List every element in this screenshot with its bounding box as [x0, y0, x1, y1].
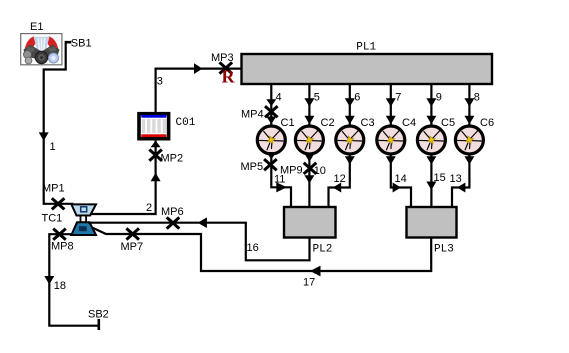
valve MP3	[220, 62, 233, 73]
label MP4	[241, 109, 264, 121]
svg-text:13: 13	[450, 173, 462, 185]
svg-text:5: 5	[314, 92, 320, 104]
svg-text:15: 15	[434, 172, 446, 184]
svg-text:C6: C6	[480, 117, 494, 129]
svg-text:MP8: MP8	[51, 241, 74, 253]
wire 12 (C3 to PL2)	[329, 156, 355, 207]
wire 18 (TC1 via MP8 to SB2)	[44, 234, 99, 326]
cooler C01	[139, 114, 169, 139]
svg-text:C3: C3	[361, 117, 375, 129]
label 11	[274, 174, 285, 186]
svg-text:C4: C4	[402, 117, 416, 129]
svg-text:C01: C01	[176, 117, 196, 129]
svg-text:9: 9	[436, 92, 442, 104]
fan C1	[257, 126, 285, 154]
wire 14 (C4 to PL3)	[386, 156, 411, 207]
label 15	[434, 172, 446, 184]
label 4	[276, 92, 282, 104]
svg-text:SB1: SB1	[71, 38, 92, 50]
label MP5	[241, 161, 264, 173]
label C3	[361, 117, 375, 129]
label MP2	[161, 153, 184, 165]
label C5	[441, 117, 455, 129]
svg-text:MP1: MP1	[42, 183, 65, 195]
plenum PL3	[407, 207, 457, 238]
svg-text:MP4: MP4	[241, 109, 264, 121]
wire 7 (PL1 to C4)	[386, 85, 396, 125]
svg-text:3: 3	[157, 76, 163, 88]
fan C3	[336, 126, 364, 154]
wire 11 (C1 via MP5 to PL2)	[266, 152, 291, 206]
valve MP6	[167, 217, 180, 228]
svg-text:8: 8	[474, 92, 480, 104]
label MP8	[51, 241, 74, 253]
label C01	[176, 117, 196, 129]
svg-text:18: 18	[54, 280, 66, 292]
label SB1	[71, 38, 92, 50]
label E1	[30, 21, 43, 33]
label C4	[402, 117, 416, 129]
wire 1 (SB1 to MP1 to TC1)	[39, 41, 74, 204]
label 3	[157, 76, 163, 88]
valve MP4	[265, 106, 278, 117]
wire 5 (PL1 to C2)	[304, 85, 314, 125]
label 14	[395, 173, 407, 185]
wire 17 (PL3 to TC1 turbine)	[200, 239, 431, 277]
label 7	[395, 92, 401, 104]
svg-text:10: 10	[314, 165, 326, 177]
svg-text:4: 4	[276, 92, 282, 104]
valve MP8	[53, 229, 66, 240]
fan C4	[377, 126, 405, 154]
label 5	[314, 92, 320, 104]
valve MP7	[126, 228, 139, 239]
label C6	[480, 117, 494, 129]
label 2	[146, 202, 152, 214]
svg-text:SB2: SB2	[88, 309, 109, 321]
svg-text:MP2: MP2	[161, 153, 184, 165]
label PL1	[356, 41, 376, 53]
wire 15 (C5 to PL3)	[426, 156, 436, 207]
svg-text:C2: C2	[321, 117, 335, 129]
svg-text:TC1: TC1	[42, 213, 63, 225]
wire 4 (PL1 to MP4 to C1)	[266, 85, 276, 125]
svg-text:2: 2	[146, 202, 152, 214]
label MP1	[42, 183, 65, 195]
valve MP9	[304, 163, 317, 174]
svg-text:14: 14	[395, 173, 407, 185]
svg-text:PL1: PL1	[356, 41, 376, 53]
svg-text:MP7: MP7	[121, 241, 144, 253]
node SB2	[98, 319, 101, 330]
label 9	[436, 92, 442, 104]
valve MP1	[52, 198, 65, 209]
svg-text:PL2: PL2	[313, 244, 333, 256]
fan C6	[455, 126, 483, 154]
label SB2	[88, 309, 109, 321]
svg-text:12: 12	[334, 173, 346, 185]
svg-text:C5: C5	[441, 117, 455, 129]
label TC1	[42, 213, 63, 225]
svg-text:E1: E1	[30, 21, 43, 33]
label 12	[334, 173, 346, 185]
label 18	[54, 280, 66, 292]
wire 13 (C6 to PL3)	[452, 156, 474, 207]
label 8	[474, 92, 480, 104]
wire 8 (PL1 to C6)	[464, 85, 474, 125]
valve MP2	[149, 150, 162, 161]
wire MP7 branch (TC1 to wire 17)	[92, 228, 201, 271]
wire 6 (PL1 to C3)	[345, 85, 355, 125]
valve MP5	[264, 159, 277, 170]
label MP7	[121, 241, 144, 253]
svg-text:17: 17	[303, 277, 315, 289]
svg-text:16: 16	[247, 242, 259, 254]
label 13	[450, 173, 462, 185]
label 10	[314, 165, 326, 177]
plenum PL1	[242, 54, 493, 84]
label C2	[321, 117, 335, 129]
fan C2	[295, 126, 323, 154]
label 6	[354, 92, 360, 104]
node SB1	[66, 41, 72, 44]
svg-text:R: R	[222, 67, 236, 87]
wire 16 (PL2 via MP6 to TC1)	[88, 217, 310, 260]
svg-text:1: 1	[50, 141, 56, 153]
label PL3	[434, 244, 454, 256]
label 1	[50, 141, 56, 153]
engine E1	[21, 34, 62, 65]
wire 10 (C2 via MP9 to PL2)	[304, 154, 314, 207]
svg-text:C1: C1	[281, 117, 295, 129]
wire 2 (TC1 to MP2 to C01)	[91, 141, 161, 214]
wire 3 (C01 to MP3 to PL1)	[156, 63, 241, 112]
label PL2	[313, 244, 333, 256]
label MP3	[211, 52, 234, 64]
wire 9 (PL1 to C5)	[426, 85, 436, 125]
svg-text:7: 7	[395, 92, 401, 104]
label C1	[281, 117, 295, 129]
svg-text:PL3: PL3	[434, 244, 454, 256]
plenum PL2	[284, 207, 336, 238]
svg-text:MP9: MP9	[280, 165, 303, 177]
label MP9	[280, 165, 303, 177]
label MP6	[161, 206, 184, 218]
fan C5	[417, 126, 445, 154]
svg-text:MP6: MP6	[161, 206, 184, 218]
svg-text:MP5: MP5	[241, 161, 264, 173]
label 16	[247, 242, 259, 254]
regulator mark R	[222, 67, 236, 87]
svg-text:MP3: MP3	[211, 52, 234, 64]
svg-text:6: 6	[354, 92, 360, 104]
turbocharger TC1	[71, 204, 96, 235]
label 17	[303, 277, 315, 289]
